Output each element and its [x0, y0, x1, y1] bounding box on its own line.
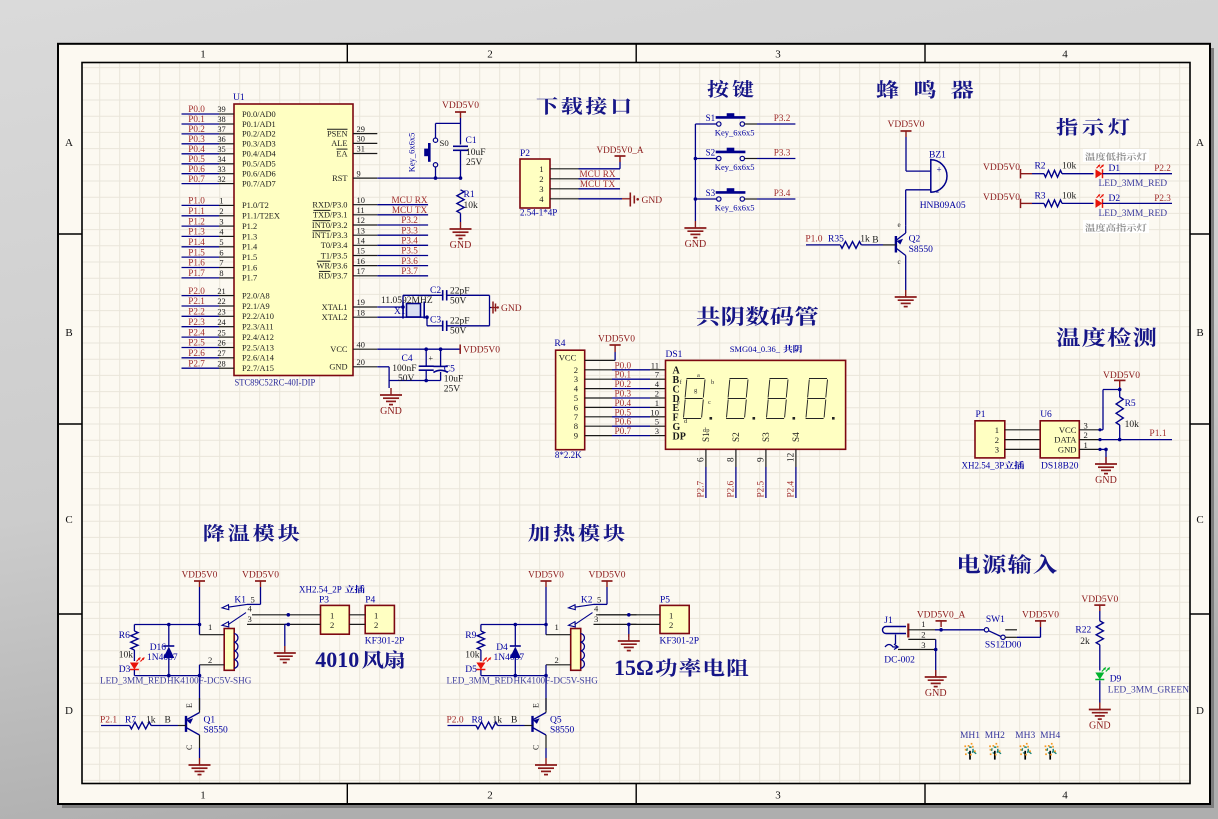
svg-text:P2.3: P2.3: [1154, 193, 1171, 203]
svg-text:22pF: 22pF: [450, 287, 470, 297]
svg-text:SW1: SW1: [986, 615, 1005, 625]
svg-text:12: 12: [785, 452, 795, 462]
svg-text:38: 38: [217, 115, 225, 124]
svg-text:3: 3: [775, 49, 781, 61]
svg-text:RD/P3.7: RD/P3.7: [318, 272, 347, 281]
svg-text:S8550: S8550: [204, 726, 229, 736]
svg-text:P2.7/A15: P2.7/A15: [242, 364, 274, 373]
svg-text:1: 1: [669, 610, 673, 620]
svg-text:XTAL2: XTAL2: [322, 313, 348, 322]
svg-text:10k: 10k: [1125, 420, 1140, 430]
svg-text:Key_6x6x5: Key_6x6x5: [407, 133, 417, 173]
svg-text:DC-002: DC-002: [884, 656, 915, 666]
svg-text:X1: X1: [394, 307, 406, 317]
svg-text:SMG04_0.36_: SMG04_0.36_: [730, 344, 781, 354]
svg-text:S2: S2: [731, 432, 741, 442]
svg-text:e: e: [677, 399, 680, 406]
svg-text:12: 12: [357, 216, 365, 225]
svg-text:D2: D2: [1109, 194, 1121, 204]
svg-text:P2.4/A12: P2.4/A12: [242, 333, 274, 342]
svg-text:P2.5/A13: P2.5/A13: [242, 343, 274, 352]
svg-text:+: +: [937, 165, 942, 175]
svg-text:23: 23: [217, 308, 225, 317]
svg-text:P3.3: P3.3: [401, 225, 418, 235]
svg-text:2: 2: [330, 620, 334, 630]
svg-text:GND: GND: [501, 304, 522, 314]
svg-text:18: 18: [357, 308, 365, 317]
svg-text:35: 35: [217, 145, 225, 154]
svg-text:1k: 1k: [860, 235, 870, 245]
svg-text:9: 9: [357, 169, 361, 178]
svg-text:B: B: [511, 715, 517, 725]
svg-text:P2.7: P2.7: [695, 480, 705, 497]
svg-text:KF301-2P: KF301-2P: [660, 637, 700, 647]
svg-text:P0.6: P0.6: [188, 164, 205, 174]
svg-text:4: 4: [594, 604, 599, 614]
svg-text:P1.5: P1.5: [188, 247, 205, 257]
svg-text:D5: D5: [465, 665, 477, 675]
svg-text:R6: R6: [119, 631, 130, 641]
svg-text:15Ω: 15Ω: [614, 655, 654, 680]
svg-text:P1: P1: [976, 410, 986, 420]
svg-text:P2.6: P2.6: [725, 480, 735, 497]
svg-text:2: 2: [487, 49, 493, 61]
svg-text:P0.2: P0.2: [188, 124, 205, 134]
svg-text:INT0/P3.2: INT0/P3.2: [312, 221, 348, 230]
svg-text:VDD5V0: VDD5V0: [242, 571, 279, 581]
svg-text:P2.1: P2.1: [100, 715, 117, 725]
svg-text:WR/P3.6: WR/P3.6: [317, 261, 348, 270]
svg-text:P3: P3: [319, 595, 329, 605]
svg-text:S0: S0: [440, 138, 450, 148]
svg-text:XTAL1: XTAL1: [322, 303, 348, 312]
svg-text:2: 2: [539, 174, 543, 184]
svg-text:2: 2: [219, 207, 223, 216]
svg-text:P1.7: P1.7: [242, 274, 257, 283]
svg-text:R35: R35: [828, 235, 844, 245]
svg-text:2: 2: [1084, 430, 1088, 440]
svg-text:10k: 10k: [465, 651, 480, 661]
svg-text:P3.5: P3.5: [401, 246, 418, 256]
svg-text:2: 2: [921, 630, 925, 640]
svg-text:2: 2: [208, 655, 212, 665]
svg-text:T1/P3.5: T1/P3.5: [321, 251, 348, 260]
svg-text:P0.0/AD0: P0.0/AD0: [242, 110, 276, 119]
svg-text:P1.2: P1.2: [242, 222, 257, 231]
svg-text:15: 15: [357, 247, 365, 256]
svg-text:P3.4: P3.4: [401, 236, 418, 246]
svg-text:P2.0: P2.0: [188, 286, 205, 296]
svg-text:P0.5: P0.5: [188, 154, 205, 164]
svg-text:3: 3: [921, 640, 925, 650]
svg-text:ALE: ALE: [331, 139, 347, 148]
svg-text:C2: C2: [430, 286, 441, 296]
svg-text:C3: C3: [430, 316, 441, 326]
svg-text:MCU TX: MCU TX: [392, 205, 428, 215]
svg-text:VDD5V0: VDD5V0: [983, 193, 1020, 203]
svg-text:1k: 1k: [146, 715, 156, 725]
svg-text:P1.5: P1.5: [242, 253, 257, 262]
svg-text:P1.6: P1.6: [242, 263, 257, 272]
svg-text:2: 2: [995, 435, 999, 445]
svg-text:C: C: [65, 514, 72, 526]
svg-text:P2.1: P2.1: [188, 296, 205, 306]
svg-text:P0.1: P0.1: [188, 114, 205, 124]
svg-text:8: 8: [219, 269, 223, 278]
svg-text:DS1: DS1: [666, 350, 683, 360]
svg-text:INT1/P3.3: INT1/P3.3: [312, 231, 348, 240]
svg-text:P0.6/AD6: P0.6/AD6: [242, 170, 276, 179]
svg-text:P2.2: P2.2: [188, 307, 205, 317]
svg-text:P1.3: P1.3: [242, 232, 257, 241]
svg-text:P3.2: P3.2: [774, 113, 791, 123]
svg-text:10: 10: [357, 196, 365, 205]
svg-text:Key_6x6x5: Key_6x6x5: [715, 203, 755, 213]
svg-text:XH2.54_2P: XH2.54_2P: [299, 585, 342, 595]
svg-text:3: 3: [219, 217, 223, 226]
svg-text:D1: D1: [1109, 164, 1121, 174]
svg-text:3: 3: [655, 426, 659, 436]
svg-text:D3: D3: [119, 665, 131, 675]
svg-text:Key_6x6x5: Key_6x6x5: [715, 162, 755, 172]
svg-text:9: 9: [755, 457, 765, 462]
svg-text:VDD5V0: VDD5V0: [598, 335, 635, 345]
svg-text:Q5: Q5: [550, 716, 562, 726]
svg-text:GND: GND: [1089, 721, 1111, 732]
svg-text:DP: DP: [673, 431, 686, 442]
svg-text:-: -: [936, 186, 940, 198]
svg-text:+: +: [429, 354, 434, 363]
svg-text:10uF: 10uF: [444, 375, 464, 385]
svg-text:8: 8: [725, 457, 735, 462]
svg-text:P0.2/AD2: P0.2/AD2: [242, 130, 276, 139]
svg-text:1: 1: [330, 610, 334, 620]
svg-text:P1.0: P1.0: [805, 235, 822, 245]
svg-text:P3.6: P3.6: [401, 256, 418, 266]
svg-text:c: c: [898, 258, 901, 266]
svg-text:P2.4: P2.4: [188, 327, 205, 337]
svg-text:P2.0/A8: P2.0/A8: [242, 291, 270, 300]
svg-text:D9: D9: [1110, 675, 1122, 685]
svg-text:1: 1: [219, 197, 223, 206]
svg-text:6: 6: [695, 457, 705, 462]
svg-text:Key_6x6x5: Key_6x6x5: [715, 128, 755, 138]
svg-text:4: 4: [248, 604, 253, 614]
svg-text:VDD5V0_A: VDD5V0_A: [597, 145, 644, 155]
svg-text:R2: R2: [1034, 162, 1045, 172]
svg-text:P2.4: P2.4: [785, 480, 795, 497]
svg-text:MH1: MH1: [960, 731, 980, 741]
svg-text:P0.5/AD5: P0.5/AD5: [242, 160, 276, 169]
svg-text:6: 6: [219, 248, 223, 257]
svg-text:P2.5: P2.5: [755, 480, 765, 497]
svg-text:VDD5V0: VDD5V0: [1081, 595, 1118, 605]
svg-text:P0.7: P0.7: [188, 174, 205, 184]
svg-text:4: 4: [539, 194, 544, 204]
svg-text:R5: R5: [1125, 399, 1136, 409]
svg-text:b: b: [711, 379, 714, 386]
svg-text:R1: R1: [464, 190, 475, 200]
svg-text:25: 25: [217, 328, 225, 337]
svg-text:31: 31: [357, 145, 365, 154]
svg-text:B: B: [1196, 327, 1203, 339]
svg-text:3: 3: [248, 614, 252, 624]
svg-text:VDD5V0: VDD5V0: [463, 346, 500, 356]
svg-text:C: C: [532, 745, 541, 750]
svg-text:1: 1: [200, 49, 206, 61]
svg-text:2: 2: [555, 655, 559, 665]
svg-text:1: 1: [208, 622, 212, 632]
svg-text:10uF: 10uF: [466, 148, 486, 158]
svg-text:GND: GND: [329, 363, 347, 372]
svg-text:VDD5V0: VDD5V0: [182, 570, 218, 580]
svg-text:DATA: DATA: [1054, 435, 1077, 445]
svg-text:S1: S1: [701, 432, 711, 442]
svg-text:P1.6: P1.6: [188, 258, 205, 268]
svg-text:VDD5V0: VDD5V0: [528, 570, 564, 580]
svg-text:S8550: S8550: [909, 245, 934, 255]
svg-text:VDD5V0: VDD5V0: [1103, 371, 1140, 381]
svg-text:P2.0: P2.0: [447, 715, 464, 725]
svg-text:MCU RX: MCU RX: [392, 195, 428, 205]
svg-text:26: 26: [217, 339, 225, 348]
svg-text:9: 9: [574, 431, 578, 441]
svg-text:P1.7: P1.7: [188, 268, 205, 278]
svg-text:3: 3: [775, 790, 781, 802]
svg-text:32: 32: [217, 175, 225, 184]
svg-text:P3.2: P3.2: [401, 215, 418, 225]
svg-text:P1.1: P1.1: [188, 206, 205, 216]
svg-text:BZ1: BZ1: [929, 151, 946, 161]
svg-text:P1.3: P1.3: [188, 227, 205, 237]
svg-text:39: 39: [217, 105, 225, 114]
svg-text:XH2.54_3P: XH2.54_3P: [962, 461, 1005, 471]
svg-text:P3.7: P3.7: [401, 266, 418, 276]
svg-text:11: 11: [357, 206, 365, 215]
svg-text:GND: GND: [1058, 444, 1077, 454]
svg-text:P2.2: P2.2: [1154, 163, 1171, 173]
svg-text:P2.3/A11: P2.3/A11: [242, 323, 274, 332]
svg-text:C4: C4: [402, 354, 413, 364]
svg-text:VDD5V0: VDD5V0: [983, 163, 1020, 173]
svg-text:37: 37: [217, 125, 225, 134]
svg-text:HK4100F-DC5V-SHG: HK4100F-DC5V-SHG: [167, 676, 252, 686]
svg-text:2: 2: [487, 790, 493, 802]
svg-text:B: B: [65, 327, 72, 339]
svg-text:22pF: 22pF: [450, 317, 470, 327]
svg-text:P2.3: P2.3: [188, 317, 205, 327]
svg-text:P1.0/T2: P1.0/T2: [242, 201, 269, 210]
svg-text:P2.2/A10: P2.2/A10: [242, 312, 274, 321]
svg-text:10k: 10k: [1062, 162, 1077, 172]
svg-text:C5: C5: [444, 365, 455, 375]
svg-text:GND: GND: [925, 688, 947, 699]
svg-text:U1: U1: [233, 93, 245, 103]
svg-text:RXD/P3.0: RXD/P3.0: [312, 201, 347, 210]
svg-text:10k: 10k: [1062, 191, 1077, 201]
svg-text:VDD5V0: VDD5V0: [888, 120, 925, 130]
svg-text:34: 34: [217, 155, 226, 164]
svg-text:C: C: [185, 745, 194, 750]
svg-text:TXD/P3.1: TXD/P3.1: [313, 211, 348, 220]
svg-text:19: 19: [357, 298, 365, 307]
svg-text:C1: C1: [466, 136, 477, 146]
svg-text:P0.7: P0.7: [615, 426, 632, 436]
svg-text:P0.3/AD3: P0.3/AD3: [242, 140, 276, 149]
svg-text:C: C: [1196, 514, 1203, 526]
svg-text:100nF: 100nF: [392, 364, 416, 374]
svg-text:P2.6/A14: P2.6/A14: [242, 354, 275, 363]
svg-text:20: 20: [357, 358, 365, 367]
svg-text:VDD5V0: VDD5V0: [442, 101, 479, 111]
svg-text:S8550: S8550: [550, 726, 575, 736]
svg-text:A: A: [65, 137, 73, 149]
svg-text:P0.0: P0.0: [188, 104, 205, 114]
svg-text:P2.5: P2.5: [188, 338, 205, 348]
svg-text:11.0592MHZ: 11.0592MHZ: [381, 296, 433, 306]
svg-text:K1: K1: [234, 596, 246, 606]
svg-text:P1.4: P1.4: [188, 237, 205, 247]
svg-text:40: 40: [357, 340, 365, 349]
svg-text:S1: S1: [706, 113, 716, 123]
svg-text:K2: K2: [581, 596, 593, 606]
svg-text:3: 3: [1084, 420, 1088, 430]
svg-text:R4: R4: [554, 339, 565, 349]
svg-text:1: 1: [374, 610, 378, 620]
svg-text:U6: U6: [1040, 410, 1052, 420]
svg-text:22: 22: [217, 297, 225, 306]
svg-text:R22: R22: [1075, 626, 1091, 636]
svg-text:36: 36: [217, 135, 225, 144]
svg-text:5: 5: [219, 238, 223, 247]
svg-text:D: D: [1196, 705, 1204, 717]
svg-text:P2.7: P2.7: [188, 358, 205, 368]
svg-text:D: D: [65, 705, 73, 717]
svg-text:1: 1: [1084, 440, 1088, 450]
svg-text:50V: 50V: [450, 297, 467, 307]
svg-text:VDD5V0: VDD5V0: [589, 571, 626, 581]
svg-text:S3: S3: [761, 432, 771, 442]
svg-text:1: 1: [200, 790, 206, 802]
svg-text:HNB09A05: HNB09A05: [920, 201, 966, 211]
svg-text:2k: 2k: [1080, 637, 1090, 647]
svg-text:E: E: [185, 703, 194, 708]
svg-text:HK4100F-DC5V-SHG: HK4100F-DC5V-SHG: [514, 676, 599, 686]
svg-text:13: 13: [357, 226, 365, 235]
svg-text:e: e: [898, 221, 901, 229]
svg-text:14: 14: [357, 237, 366, 246]
svg-text:MH4: MH4: [1040, 731, 1060, 741]
svg-text:S2: S2: [706, 147, 716, 157]
svg-text:a: a: [697, 372, 700, 379]
svg-text:10k: 10k: [119, 651, 134, 661]
svg-text:MH3: MH3: [1015, 731, 1035, 741]
svg-text:VDD5V0_A: VDD5V0_A: [917, 611, 966, 621]
svg-text:2: 2: [669, 620, 673, 630]
svg-text:28: 28: [217, 359, 225, 368]
svg-text:A: A: [1196, 137, 1204, 149]
svg-text:MCU RX: MCU RX: [580, 169, 616, 179]
svg-text:30: 30: [357, 135, 365, 144]
svg-text:MCU TX: MCU TX: [580, 179, 616, 189]
svg-text:P5: P5: [660, 595, 670, 605]
svg-text:P1.1/T2EX: P1.1/T2EX: [242, 212, 280, 221]
svg-text:VDD5V0: VDD5V0: [1022, 611, 1059, 621]
svg-text:P0.1/AD1: P0.1/AD1: [242, 120, 276, 129]
svg-text:D16: D16: [150, 643, 167, 653]
svg-text:GND: GND: [380, 406, 402, 417]
svg-text:P4: P4: [365, 595, 375, 605]
svg-text:GND: GND: [685, 239, 707, 250]
svg-text:B: B: [165, 715, 171, 725]
svg-text:LED_3MM_RED: LED_3MM_RED: [1099, 179, 1168, 189]
svg-text:1N4007: 1N4007: [147, 653, 178, 663]
svg-text:P0.3: P0.3: [188, 134, 205, 144]
svg-text:MH2: MH2: [985, 731, 1005, 741]
svg-text:P2.1/A9: P2.1/A9: [242, 302, 270, 311]
svg-text:50V: 50V: [450, 327, 467, 337]
svg-text:GND: GND: [642, 196, 663, 206]
svg-text:c: c: [708, 399, 711, 406]
svg-text:P1.2: P1.2: [188, 216, 205, 226]
svg-text:GND: GND: [450, 240, 472, 251]
svg-text:16: 16: [357, 257, 365, 266]
svg-text:2: 2: [374, 620, 378, 630]
svg-text:7: 7: [219, 259, 223, 268]
svg-text:50V: 50V: [398, 374, 415, 384]
svg-text:17: 17: [357, 267, 365, 276]
svg-text:VCC: VCC: [330, 345, 348, 354]
svg-text:P1.0: P1.0: [188, 196, 205, 206]
svg-text:1k: 1k: [493, 715, 503, 725]
svg-text:E: E: [532, 703, 541, 708]
svg-text:Q1: Q1: [204, 716, 216, 726]
svg-text:25V: 25V: [444, 385, 461, 395]
svg-text:P1.4: P1.4: [242, 243, 258, 252]
svg-text:T0/P3.4: T0/P3.4: [321, 241, 349, 250]
svg-text:P3.4: P3.4: [774, 188, 791, 198]
svg-text:LED_3MM_RED: LED_3MM_RED: [100, 676, 167, 686]
svg-text:10k: 10k: [464, 201, 479, 211]
svg-text:24: 24: [217, 318, 226, 327]
svg-text:25V: 25V: [466, 158, 483, 168]
svg-text:21: 21: [217, 287, 225, 296]
svg-text:R3: R3: [1034, 191, 1045, 201]
svg-text:B: B: [872, 235, 878, 245]
svg-text:VCC: VCC: [559, 353, 577, 363]
svg-text:P2: P2: [520, 149, 530, 159]
svg-text:KF301-2P: KF301-2P: [365, 637, 405, 647]
svg-text:8*2.2K: 8*2.2K: [555, 450, 582, 460]
svg-text:DS18B20: DS18B20: [1041, 462, 1079, 472]
svg-text:LED_3MM_RED: LED_3MM_RED: [1099, 209, 1168, 219]
svg-text:LED_3MM_GREEN: LED_3MM_GREEN: [1108, 686, 1189, 696]
svg-text:EA: EA: [336, 149, 347, 158]
svg-text:1: 1: [995, 425, 999, 435]
svg-text:D4: D4: [496, 643, 508, 653]
svg-text:R9: R9: [465, 631, 476, 641]
svg-text:4: 4: [1062, 790, 1068, 802]
svg-text:P2.6: P2.6: [188, 348, 205, 358]
svg-text:27: 27: [217, 349, 225, 358]
svg-text:P0.7/AD7: P0.7/AD7: [242, 179, 276, 188]
svg-text:P3.3: P3.3: [774, 148, 791, 158]
svg-text:SS12D00: SS12D00: [985, 641, 1022, 651]
svg-text:P0.4/AD4: P0.4/AD4: [242, 150, 277, 159]
svg-text:RST: RST: [332, 174, 347, 183]
svg-text:4010: 4010: [315, 647, 359, 672]
svg-text:2.54-1*4P: 2.54-1*4P: [520, 208, 557, 218]
